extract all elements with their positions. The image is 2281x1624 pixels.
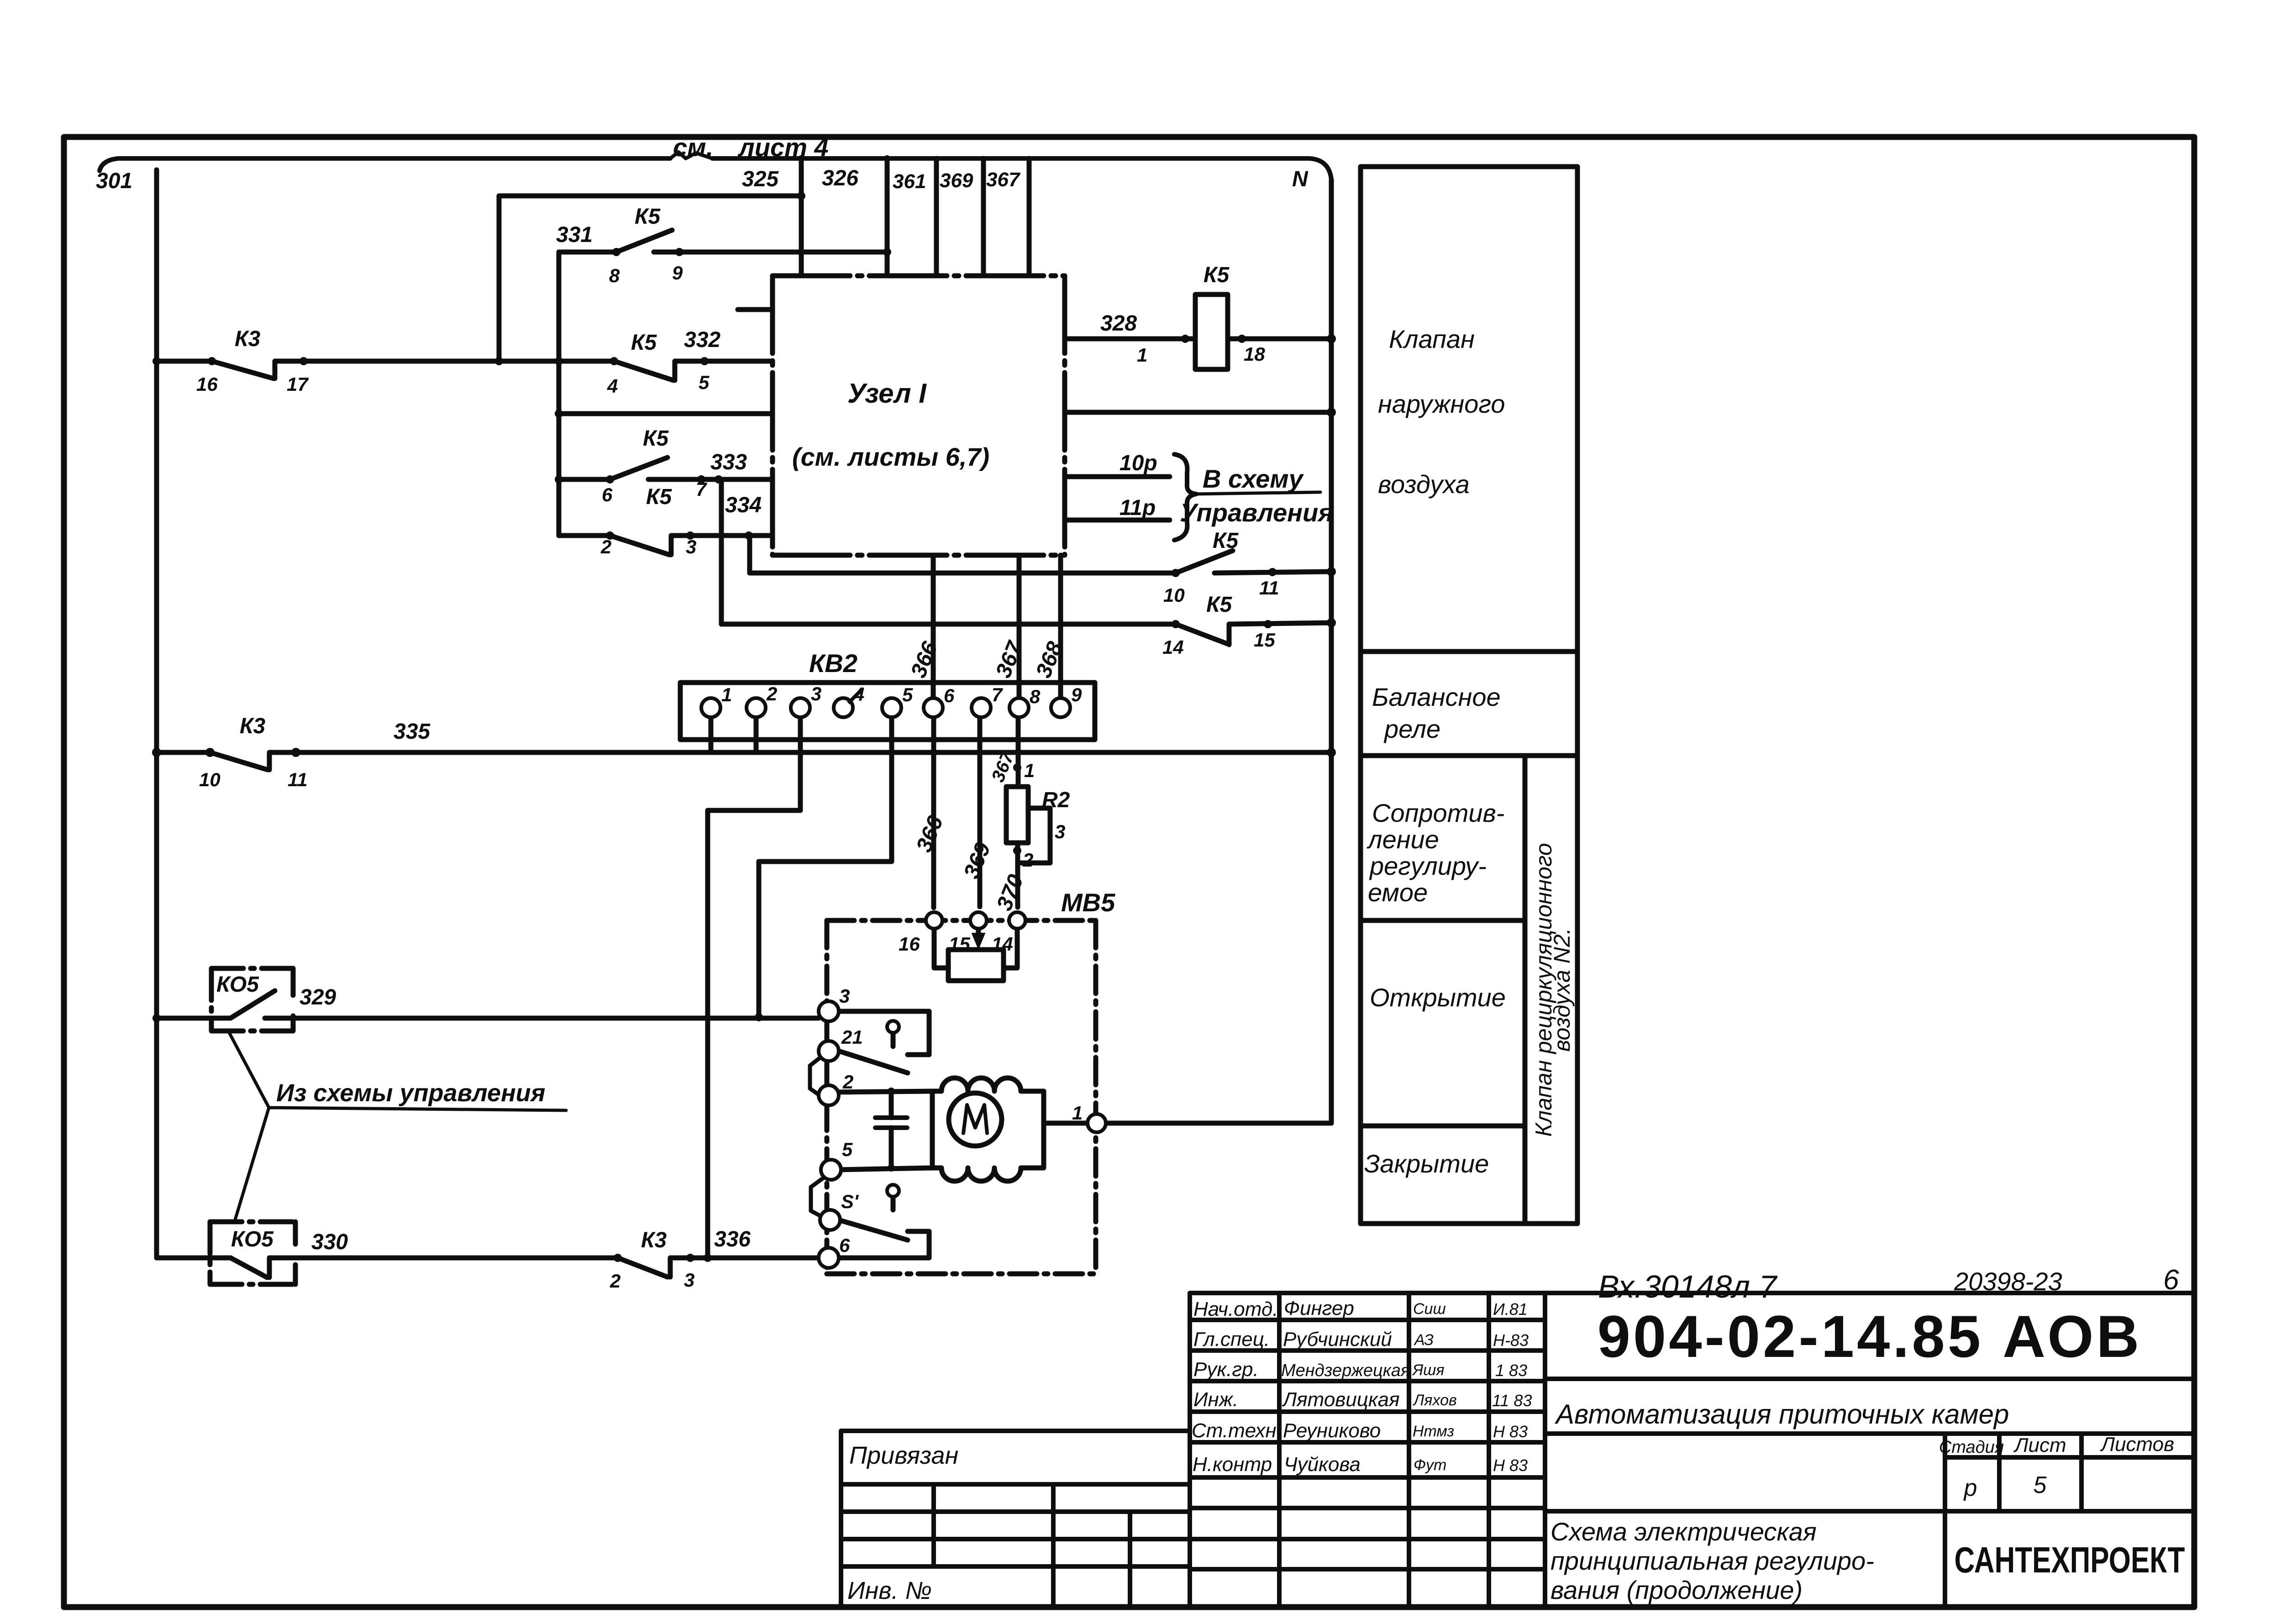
svg-text:Чуйкова: Чуйкова — [1284, 1453, 1361, 1476]
svg-text:Рубчинский: Рубчинский — [1283, 1328, 1392, 1351]
svg-text:17: 17 — [287, 373, 309, 395]
svg-text:336: 336 — [714, 1227, 751, 1251]
svg-text:Яшя: Яшя — [1412, 1361, 1445, 1379]
svg-text:10р: 10р — [1119, 451, 1157, 475]
svg-text:3: 3 — [1055, 821, 1065, 842]
svg-text:Рук.гр.: Рук.гр. — [1193, 1358, 1259, 1381]
svg-text:11: 11 — [1259, 577, 1279, 599]
svg-text:воздуха: воздуха — [1378, 470, 1470, 499]
svg-text:К5: К5 — [1206, 593, 1233, 617]
svg-text:В схему: В схему — [1203, 464, 1304, 493]
svg-text:3: 3 — [684, 1269, 694, 1291]
svg-text:К3: К3 — [240, 714, 266, 738]
svg-text:3: 3 — [686, 536, 696, 557]
svg-text:9: 9 — [672, 262, 683, 284]
svg-text:Из схемы управления: Из схемы управления — [276, 1079, 545, 1107]
svg-text:Сопротив-: Сопротив- — [1372, 799, 1504, 827]
svg-text:20398-23: 20398-23 — [1954, 1267, 2062, 1296]
svg-text:R2: R2 — [1042, 788, 1070, 812]
svg-text:2: 2 — [600, 536, 611, 557]
svg-text:904-02-14.85 АОВ: 904-02-14.85 АОВ — [1598, 1303, 2142, 1370]
svg-text:Инж.: Инж. — [1193, 1388, 1238, 1411]
svg-text:Мендзержецкая: Мендзержецкая — [1281, 1361, 1410, 1380]
svg-text:11р: 11р — [1119, 496, 1156, 520]
svg-text:САНТЕХПРОЕКТ: САНТЕХПРОЕКТ — [1955, 1540, 2185, 1580]
svg-text:330: 330 — [311, 1230, 348, 1254]
svg-text:1: 1 — [721, 684, 732, 705]
svg-text:328: 328 — [1100, 311, 1137, 336]
svg-text:Н-83: Н-83 — [1493, 1331, 1529, 1350]
svg-text:2: 2 — [842, 1071, 853, 1093]
svg-text:Нач.отд.: Нач.отд. — [1193, 1298, 1278, 1320]
svg-text:N: N — [1292, 167, 1309, 191]
svg-text:5: 5 — [902, 684, 913, 705]
svg-text:8: 8 — [1030, 686, 1041, 707]
svg-text:Закрытие: Закрытие — [1364, 1149, 1489, 1178]
svg-text:Н 83: Н 83 — [1493, 1456, 1528, 1475]
svg-text:Вх.30148л 7: Вх.30148л 7 — [1598, 1269, 1778, 1304]
svg-text:К5: К5 — [1213, 529, 1239, 553]
svg-text:15: 15 — [949, 933, 970, 955]
svg-text:335: 335 — [394, 720, 431, 744]
svg-text:14: 14 — [992, 933, 1013, 955]
svg-text:11: 11 — [288, 769, 308, 790]
svg-text:329: 329 — [300, 985, 336, 1009]
svg-text:К5: К5 — [1204, 263, 1230, 287]
svg-text:2: 2 — [1022, 849, 1033, 871]
svg-text:6: 6 — [944, 685, 955, 706]
svg-text:1: 1 — [1137, 344, 1147, 366]
svg-text:301: 301 — [96, 169, 132, 193]
svg-text:принципиальная регулиро-: принципиальная регулиро- — [1550, 1546, 1874, 1575]
svg-text:Ст.техн.: Ст.техн. — [1192, 1419, 1282, 1442]
svg-text:Балансное: Балансное — [1372, 683, 1501, 711]
svg-text:ление: ление — [1366, 825, 1439, 854]
svg-text:Лист: Лист — [2013, 1434, 2066, 1456]
svg-text:3: 3 — [811, 683, 821, 704]
svg-text:Фингер: Фингер — [1284, 1297, 1354, 1319]
svg-text:КО5: КО5 — [231, 1227, 274, 1251]
svg-text:регулиру-: регулиру- — [1369, 851, 1487, 880]
svg-text:21: 21 — [841, 1026, 863, 1048]
svg-text:326: 326 — [822, 166, 858, 190]
svg-text:см.: см. — [673, 133, 713, 162]
svg-text:Гл.спец.: Гл.спец. — [1193, 1328, 1270, 1351]
svg-text:КВ2: КВ2 — [809, 649, 857, 678]
svg-text:361: 361 — [893, 170, 926, 193]
svg-text:Автоматизация приточных каме: Автоматизация приточных камер — [1555, 1399, 2009, 1430]
svg-text:Лятовицкая: Лятовицкая — [1282, 1388, 1400, 1411]
svg-text:И.81: И.81 — [1493, 1300, 1528, 1319]
svg-text:К5: К5 — [631, 331, 657, 355]
svg-text:АЗ: АЗ — [1414, 1331, 1434, 1349]
svg-text:14: 14 — [1162, 636, 1184, 658]
svg-text:334: 334 — [725, 493, 762, 517]
svg-text:Фут: Фут — [1414, 1456, 1446, 1474]
svg-text:Листов: Листов — [2100, 1433, 2174, 1456]
svg-text:9: 9 — [1071, 684, 1082, 705]
svg-text:8: 8 — [609, 265, 620, 286]
svg-text:1: 1 — [1024, 760, 1035, 781]
svg-text:Узел I: Узел I — [847, 378, 927, 409]
svg-text:Привязан: Привязан — [849, 1442, 958, 1469]
svg-text:Реуниково: Реуниково — [1283, 1419, 1381, 1442]
svg-text:6: 6 — [602, 484, 613, 505]
svg-text:7: 7 — [992, 684, 1003, 705]
svg-text:6: 6 — [839, 1235, 850, 1256]
svg-text:16: 16 — [899, 933, 920, 955]
svg-text:10: 10 — [199, 769, 221, 790]
svg-text:3: 3 — [839, 985, 850, 1007]
svg-text:367: 367 — [986, 168, 1021, 191]
svg-text:Клапан: Клапан — [1389, 325, 1475, 353]
svg-text:емое: емое — [1368, 878, 1428, 907]
svg-text:332: 332 — [684, 328, 720, 352]
svg-text:18: 18 — [1244, 343, 1265, 365]
svg-text:S': S' — [841, 1191, 859, 1212]
svg-text:К5: К5 — [643, 426, 669, 451]
svg-text:Инв. №: Инв. № — [847, 1577, 932, 1604]
svg-text:15: 15 — [1254, 629, 1275, 651]
svg-text:11 83: 11 83 — [1492, 1391, 1532, 1410]
svg-text:5: 5 — [842, 1139, 853, 1160]
svg-text:наружного: наружного — [1378, 389, 1505, 418]
svg-text:вания (продолжение): вания (продолжение) — [1550, 1576, 1803, 1604]
svg-text:Сиш: Сиш — [1413, 1300, 1446, 1318]
svg-text:331: 331 — [556, 223, 593, 247]
svg-text:1 83: 1 83 — [1495, 1361, 1527, 1380]
svg-text:К5: К5 — [646, 485, 673, 509]
svg-text:10: 10 — [1163, 584, 1185, 606]
svg-text:Открытие: Открытие — [1370, 983, 1506, 1012]
svg-text:Управления: Управления — [1180, 498, 1333, 527]
svg-text:16: 16 — [196, 373, 218, 395]
svg-text:5: 5 — [699, 372, 710, 393]
svg-text:К3: К3 — [641, 1228, 667, 1252]
svg-text:реле: реле — [1383, 715, 1440, 743]
svg-text:(см. листы 6,7): (см. листы 6,7) — [792, 442, 989, 471]
svg-text:5: 5 — [2034, 1472, 2047, 1498]
svg-text:369: 369 — [940, 169, 973, 192]
svg-text:2: 2 — [766, 683, 777, 704]
svg-text:воздуха N2.: воздуха N2. — [1549, 928, 1575, 1052]
svg-text:7: 7 — [696, 478, 707, 500]
svg-text:КО5: КО5 — [216, 972, 259, 997]
svg-text:К5: К5 — [635, 205, 661, 229]
svg-text:Схема электрическая: Схема электрическая — [1550, 1517, 1817, 1546]
svg-text:р: р — [1963, 1475, 1977, 1501]
svg-text:МВ5: МВ5 — [1061, 888, 1115, 917]
svg-text:2: 2 — [610, 1270, 620, 1292]
svg-text:4: 4 — [607, 375, 618, 397]
svg-text:Нтмз: Нтмз — [1413, 1423, 1454, 1440]
svg-text:К3: К3 — [235, 327, 261, 351]
svg-text:6: 6 — [2163, 1264, 2179, 1296]
svg-text:лист 4: лист 4 — [737, 133, 829, 162]
svg-text:Стадия: Стадия — [1939, 1438, 2004, 1457]
svg-text:Ляхов: Ляхов — [1413, 1392, 1457, 1409]
svg-text:333: 333 — [710, 450, 747, 474]
svg-text:1: 1 — [1072, 1102, 1083, 1124]
svg-text:Н 83: Н 83 — [1493, 1422, 1528, 1441]
svg-text:325: 325 — [742, 167, 779, 191]
svg-text:Н.контр: Н.контр — [1193, 1453, 1272, 1476]
